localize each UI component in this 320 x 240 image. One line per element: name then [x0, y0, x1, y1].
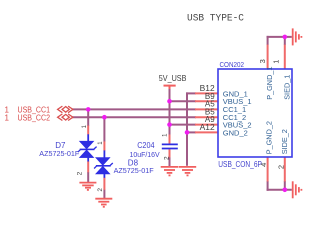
- wire pin1 corner: [284, 36, 286, 45]
- svg-text:1: 1: [272, 60, 281, 64]
- pin stub A5: [195, 108, 218, 110]
- ground bottom-right rotated: [293, 181, 302, 198]
- svg-text:SIDE_2: SIDE_2: [280, 129, 289, 154]
- wire CC1 horizontal: [72, 108, 196, 110]
- svg-text:2: 2: [77, 171, 84, 175]
- power symbol 5V_USB: [164, 85, 176, 87]
- pin stub 4 bottom: [267, 157, 269, 182]
- svg-text:1: 1: [5, 113, 10, 122]
- wire bottom-right horizontal: [267, 189, 292, 191]
- pin stub A12: [195, 131, 218, 133]
- svg-text:3: 3: [258, 59, 267, 63]
- wire D7 drop: [87, 109, 89, 126]
- svg-text:10uF/16V: 10uF/16V: [130, 150, 160, 159]
- junction node bottom-right: [283, 188, 288, 193]
- svg-text:SIED_1: SIED_1: [282, 75, 291, 100]
- diode D7 TVS: [78, 134, 97, 161]
- pin stub 3 top: [267, 45, 269, 69]
- ground (D7): [79, 183, 96, 190]
- wire cap to ground: [169, 157, 171, 166]
- pin stub D7 bottom: [87, 161, 89, 172]
- junction node D7/CC1: [86, 107, 91, 112]
- wire pin4 corner: [267, 181, 269, 191]
- wire D7 to ground: [87, 172, 89, 182]
- capacitor C204: [162, 144, 178, 148]
- svg-text:CON202: CON202: [220, 60, 245, 69]
- svg-text:AZ5725-01F: AZ5725-01F: [39, 149, 79, 158]
- off-page connector USB_CC2: [58, 114, 73, 121]
- wire 5V vertical: [169, 88, 171, 135]
- wire CC2 horizontal: [72, 116, 196, 118]
- svg-text:1: 1: [162, 133, 168, 137]
- svg-text:AZ5725-01F: AZ5725-01F: [114, 166, 154, 175]
- pin stub C204 bottom: [169, 149, 171, 157]
- ground (D8): [95, 199, 112, 207]
- junction node top-right: [283, 35, 288, 40]
- ground (C204): [161, 167, 179, 176]
- wire D8 to ground: [103, 190, 105, 199]
- junction node GND/A12: [185, 130, 190, 135]
- junction node 5V/B9: [167, 99, 172, 104]
- wire A9 VBUS_2: [170, 124, 197, 126]
- connector CON202 box: [218, 69, 292, 157]
- pin stub 1 top: [284, 45, 286, 69]
- svg-text:USB_CON_6P: USB_CON_6P: [218, 159, 262, 169]
- wire pin2 corner: [284, 181, 286, 191]
- pin stub D7 top: [87, 126, 89, 135]
- svg-text:2: 2: [164, 156, 171, 160]
- pin stub B9: [195, 100, 218, 102]
- junction node 5V/A9: [167, 122, 172, 127]
- svg-text:USB TYPE-C: USB TYPE-C: [187, 14, 244, 25]
- svg-text:P_GND_2: P_GND_2: [264, 121, 273, 154]
- svg-text:GND_2: GND_2: [223, 128, 248, 137]
- pin stub 2 bottom: [284, 157, 286, 182]
- svg-text:2: 2: [97, 188, 104, 192]
- svg-text:USB_CC2: USB_CC2: [18, 113, 51, 122]
- off-page connector USB_CC1: [58, 106, 73, 113]
- wire GND bus vertical: [186, 92, 188, 165]
- wire B9 VBUS_1: [170, 100, 197, 102]
- svg-text:C204: C204: [137, 141, 155, 150]
- svg-text:5V_USB: 5V_USB: [159, 74, 187, 83]
- svg-text:4: 4: [259, 163, 268, 167]
- wire pin3 corner: [267, 36, 269, 45]
- svg-text:2: 2: [276, 165, 285, 169]
- pin stub B12: [195, 92, 218, 94]
- pin stub D8 bottom: [103, 178, 105, 190]
- wire A12 GND_2: [186, 131, 196, 133]
- wire top-right horizontal: [267, 36, 292, 38]
- svg-text:A12: A12: [200, 123, 216, 132]
- svg-text:1: 1: [98, 141, 104, 145]
- ground top-right rotated: [293, 28, 302, 45]
- diode D8 TVS: [94, 150, 113, 177]
- wire B12 GND_1: [186, 92, 196, 94]
- ground (GND bus): [179, 167, 197, 176]
- wire D8 drop: [103, 117, 105, 141]
- svg-text:P_GND_1: P_GND_1: [265, 67, 274, 100]
- svg-text:1: 1: [82, 124, 88, 128]
- junction node D8/CC2: [102, 115, 107, 120]
- pin stub D8 top: [103, 141, 105, 150]
- pin stub B5: [195, 116, 218, 118]
- pin stub A9: [195, 124, 218, 126]
- pin stub C204 top: [169, 135, 171, 144]
